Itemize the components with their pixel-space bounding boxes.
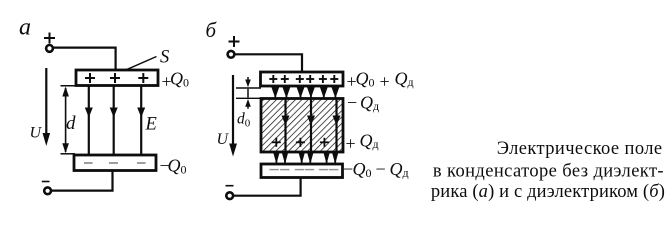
- bottom gap arrowheads (b): [273, 152, 338, 164]
- svg-text:б: б: [206, 18, 218, 42]
- dimension extension line bottom (a): [61, 153, 76, 155]
- dielectric block (b): [261, 99, 343, 153]
- field line 1 in dielectric: [282, 99, 290, 153]
- d0 dimension arrows: [245, 77, 251, 109]
- bottom gap field stubs (b): [276, 152, 335, 164]
- field line 3 (a): [137, 86, 145, 154]
- svg-text:a: a: [19, 15, 31, 41]
- svg-text:+Q0+Qд: +Q0+Qд: [347, 69, 414, 92]
- plus terminal top (a): [44, 33, 55, 44]
- bottom plate (b): [261, 164, 343, 178]
- field line 1 (a): [85, 86, 93, 154]
- wire top (a): [54, 48, 116, 71]
- top gap arrowheads (b): [271, 87, 339, 98]
- plus charges bottom of dielectric: [272, 138, 329, 147]
- wire top (b): [235, 54, 302, 72]
- field line 2 (a): [110, 86, 118, 154]
- terminal circle top (a): [46, 45, 53, 52]
- plus charges in top plate (a): [85, 73, 148, 83]
- wire bottom (b): [234, 178, 301, 196]
- svg-text:−Q0−Qд: −Q0−Qд: [343, 159, 409, 180]
- arrow U (b): [229, 75, 237, 157]
- dimension arrow d: [62, 87, 69, 154]
- minus sign bottom terminal (a): [42, 181, 50, 183]
- minus charges in bottom plate (a): [84, 162, 146, 164]
- arrow U (a): [43, 68, 51, 146]
- svg-text:d: d: [66, 113, 76, 134]
- dimension extension line top (a): [61, 85, 78, 87]
- svg-text:в конденсаторе без диэлект-: в конденсаторе без диэлект-: [433, 162, 664, 182]
- field line 2 in dielectric: [307, 99, 315, 153]
- top plate (a): [76, 70, 158, 86]
- plus charges in top plate (b): [269, 75, 338, 83]
- d0 extension line upper: [236, 87, 261, 89]
- terminal circle bottom (a): [44, 187, 51, 194]
- svg-text:E: E: [145, 114, 157, 134]
- svg-text:U: U: [217, 131, 230, 148]
- svg-text:S: S: [160, 48, 169, 68]
- terminal circle bottom (b): [226, 192, 233, 199]
- bottom plate (a): [74, 155, 156, 171]
- wire bottom (a): [52, 171, 113, 191]
- S leader line: [127, 57, 157, 70]
- minus sign bottom terminal (b): [226, 185, 234, 187]
- minus charges in bottom plate (b): [269, 169, 338, 171]
- plus terminal top (b): [229, 36, 240, 47]
- top plate (b): [261, 72, 344, 86]
- d0 extension line lower: [236, 97, 261, 99]
- svg-text:рика (а) и с диэлектриком (б): рика (а) и с диэлектриком (б): [431, 182, 665, 202]
- top gap field stubs (b): [275, 86, 335, 99]
- svg-text:Электрическое поле: Электрическое поле: [497, 139, 663, 159]
- terminal circle top (b): [228, 51, 235, 58]
- field line 3 in dielectric: [333, 99, 341, 153]
- svg-text:U: U: [30, 125, 43, 142]
